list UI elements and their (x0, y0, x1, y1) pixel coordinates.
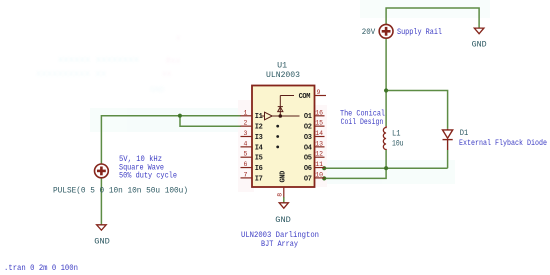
repetition dots (276, 125, 279, 149)
svg-text:External Flyback Diode: External Flyback Diode (459, 139, 547, 148)
internal buffer symbol (262, 96, 300, 120)
wire: supply to inductor top (385, 38, 387, 126)
ground symbol under pulse source (97, 225, 107, 230)
pin name COM (299, 93, 311, 101)
svg-text:ULN2003: ULN2003 (266, 71, 300, 80)
label GND pulse (94, 236, 110, 246)
ground symbol under IC (279, 203, 288, 208)
pin 12 stub (315, 156, 325, 158)
svg-text:O3: O3 (304, 134, 312, 142)
junction dot supply/diode branch (384, 88, 388, 92)
svg-text:PULSE(0 5 0 10n 10n 50u 100u): PULSE(0 5 0 10n 10n 50u 100u) (53, 186, 188, 195)
junction dot O7 pin (322, 176, 326, 180)
pin 3 stub (241, 136, 253, 138)
svg-text:8: 8 (277, 193, 284, 197)
pin 8 GND stub (283, 187, 285, 197)
svg-text:O4: O4 (304, 144, 312, 152)
pin 10 stub (315, 177, 325, 179)
pin 16 stub (315, 115, 325, 117)
wire: top of diode branch (386, 91, 448, 129)
pin name GND rotated (280, 171, 288, 183)
svg-text:GND: GND (275, 215, 291, 225)
pin 2 stub (241, 125, 253, 127)
label GND supply (472, 39, 487, 49)
svg-text:xx: xx (162, 70, 172, 79)
svg-text:10u: 10u (392, 140, 404, 149)
svg-text:16: 16 (315, 109, 323, 116)
pin 5 stub (241, 156, 253, 158)
svg-text:Supply Rail: Supply Rail (397, 28, 442, 37)
label L1 (392, 130, 401, 139)
pin names inputs (255, 113, 263, 183)
label ULN2003 value (266, 71, 300, 80)
label: PULSE value (53, 186, 188, 195)
svg-text:1: 1 (244, 109, 248, 116)
svg-text:O5: O5 (304, 155, 312, 163)
label External Flyback Diode (459, 139, 547, 148)
svg-text:.tran 0 2m 0 100n: .tran 0 2m 0 100n (4, 264, 78, 273)
svg-text:O7: O7 (304, 175, 312, 183)
internal clamp diode arrow (278, 107, 283, 112)
svg-text:GND: GND (94, 236, 110, 246)
wire: pulse source bottom to ground (100, 178, 102, 224)
pin names outputs (304, 113, 312, 183)
wire: branch to pin2 (180, 116, 241, 127)
label D1 (460, 129, 469, 138)
svg-text:4: 4 (244, 140, 248, 147)
label: 5V, 10 kHz Square Wave 50% duty cycle (119, 155, 177, 181)
pin 7 stub (241, 177, 253, 179)
svg-text:ULN2003 Darlington: ULN2003 Darlington (241, 231, 319, 240)
svg-text:12: 12 (315, 151, 323, 158)
pin 15 stub (315, 125, 325, 127)
wire: O6 to coil network (324, 167, 448, 169)
svg-text:I5: I5 (255, 155, 263, 163)
svg-text:Coil Design: Coil Design (341, 118, 384, 127)
label Supply Rail (397, 28, 442, 37)
label 20V (362, 28, 376, 37)
junction dot on pin1 wire (178, 114, 182, 118)
label U1 (277, 61, 287, 70)
label The Conical Coil Design (340, 110, 385, 127)
svg-text:I6: I6 (255, 165, 263, 173)
svg-text:I3: I3 (255, 134, 263, 142)
wire: supply rail top loop to ground (386, 8, 479, 28)
svg-text:O2: O2 (304, 124, 312, 132)
wire: pulse source to pin1 (101, 116, 240, 164)
internal node dot (279, 114, 283, 118)
svg-text:xxxxxxxxxx xx: xxxxxxxxxx xx (36, 69, 106, 79)
wire: IC gnd pin to ground (283, 197, 285, 203)
watermark ghost (36, 34, 181, 95)
junction dot O6 pin (322, 166, 326, 170)
pin numbers left (244, 109, 248, 178)
svg-text:7: 7 (244, 171, 248, 178)
svg-text:6: 6 (244, 161, 248, 168)
svg-text:x: x (176, 34, 181, 43)
svg-text:GND: GND (150, 86, 165, 95)
pin 14 stub (315, 136, 325, 138)
svg-text:3: 3 (244, 130, 248, 137)
pin 6 stub (241, 167, 253, 169)
inductor L1 (383, 126, 386, 150)
svg-text:I1: I1 (255, 113, 263, 121)
svg-text:L1: L1 (392, 130, 401, 139)
svg-text:U1: U1 (277, 61, 287, 70)
ground symbol top right (474, 28, 484, 34)
spice directive .tran (4, 264, 78, 273)
svg-text:2: 2 (244, 120, 248, 127)
IC U1 body (252, 86, 315, 188)
voltage source V2 pulse (95, 164, 109, 178)
svg-text:13: 13 (315, 140, 323, 147)
wire: diode bottom (447, 150, 449, 168)
svg-text:BJT Array: BJT Array (261, 240, 298, 249)
svg-text:I2: I2 (255, 124, 263, 132)
pin numbers right (315, 109, 323, 178)
pin 11 stub (315, 167, 325, 169)
svg-text:COM: COM (299, 93, 311, 101)
junction dot coil bottom (384, 166, 388, 170)
svg-text:D1: D1 (460, 129, 469, 138)
label GND IC (275, 215, 291, 225)
svg-text:I7: I7 (255, 175, 263, 183)
pin number 9 (317, 89, 321, 96)
pin 4 stub (241, 146, 253, 148)
svg-text:15: 15 (315, 120, 323, 127)
background washes (90, 0, 490, 192)
wire: O7 up to coil bottom (324, 168, 386, 178)
svg-text:5V, 10 kHz: 5V, 10 kHz (119, 155, 162, 164)
svg-text:Rxx: Rxx (166, 57, 181, 66)
label 10u (392, 140, 404, 149)
pin 9 COM stub (315, 95, 327, 97)
svg-text:I4: I4 (255, 144, 263, 152)
wire: inductor bottom (385, 150, 387, 168)
pin number 8 (277, 193, 284, 197)
voltage source V1 supply (379, 24, 393, 38)
svg-text:11: 11 (315, 161, 323, 168)
pin 13 stub (315, 146, 325, 148)
svg-text:10: 10 (315, 171, 323, 178)
diode D1 (443, 129, 453, 150)
label ULN2003 Darlington BJT Array (241, 231, 319, 249)
svg-text:20V: 20V (362, 28, 376, 37)
pin 1 stub (241, 115, 253, 117)
svg-text:14: 14 (315, 130, 323, 137)
svg-text:9: 9 (317, 89, 321, 96)
svg-text:5: 5 (244, 151, 248, 158)
svg-text:50% duty cycle: 50% duty cycle (119, 172, 177, 181)
svg-text:xxxxxx xxxxxxxx: xxxxxx xxxxxxxx (58, 55, 139, 65)
svg-text:GND: GND (280, 171, 288, 183)
svg-text:O6: O6 (304, 165, 312, 173)
svg-text:O1: O1 (304, 113, 312, 121)
svg-text:GND: GND (472, 39, 487, 49)
